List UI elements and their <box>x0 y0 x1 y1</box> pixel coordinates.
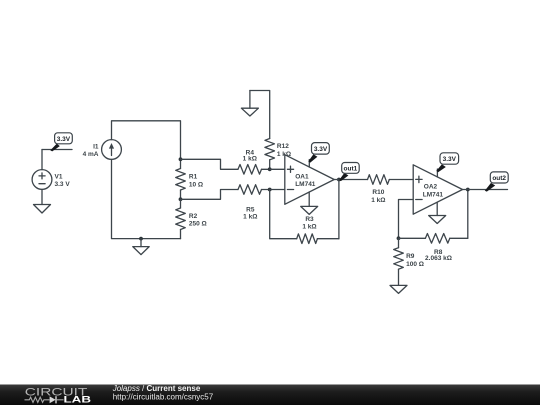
net flag 3.3V (OA1) <box>308 143 329 163</box>
wire OA1 output to R10 <box>334 179 367 181</box>
svg-text:OA1: OA1 <box>295 173 309 180</box>
wire OA1 V+ stub <box>308 160 310 168</box>
ground (OA1 V-) <box>301 206 318 214</box>
current source I1 <box>83 140 122 160</box>
wire I1 top to R1 column <box>112 121 181 160</box>
ground (bottom wire) <box>133 239 149 255</box>
resistor R3 <box>297 216 339 244</box>
net flag out2 <box>485 172 508 192</box>
svg-text:3.3V: 3.3V <box>443 156 457 163</box>
svg-text:OA2: OA2 <box>424 183 438 190</box>
svg-text:1 kΩ: 1 kΩ <box>243 156 257 163</box>
svg-text:V1: V1 <box>55 174 63 181</box>
svg-text:R12: R12 <box>277 143 289 150</box>
resistor R10 <box>368 175 414 204</box>
svg-text:LM741: LM741 <box>295 181 316 188</box>
svg-text:10 Ω: 10 Ω <box>189 181 203 188</box>
net flag 3.3V (at V1) <box>50 133 72 152</box>
node OA1 + input junction <box>268 167 272 171</box>
wire OA1 feedback left leg <box>270 190 297 239</box>
wire OA2 V- stub <box>436 203 438 216</box>
op-amp OA1 <box>285 155 334 205</box>
resistor R8 <box>399 234 468 263</box>
svg-text:LM741: LM741 <box>423 192 444 199</box>
node R8/R9 junction <box>397 236 401 240</box>
wire sense+ (R1 top to R4) <box>181 159 239 169</box>
node OA1 output <box>337 178 341 182</box>
svg-text:3.3V: 3.3V <box>314 146 328 153</box>
ground (OA2 V-) <box>429 216 446 224</box>
net flag out1 <box>339 163 359 182</box>
svg-text:out1: out1 <box>344 166 358 173</box>
ground (below R9) <box>390 285 407 293</box>
wire OA1 V- stub <box>308 192 310 206</box>
wire ground to R12 top <box>250 91 270 139</box>
wire OA2 feedback right leg <box>467 190 469 239</box>
svg-text:R9: R9 <box>406 253 415 260</box>
node OA2 output <box>466 188 470 192</box>
svg-text:4 mA: 4 mA <box>83 151 99 158</box>
net flag 3.3V (OA2) <box>436 153 458 173</box>
resistor R2 <box>176 199 207 238</box>
svg-text:1 kΩ: 1 kΩ <box>243 214 257 221</box>
wire sense- (R1/R2 junction to R5) <box>181 190 239 200</box>
wire I1 bottom <box>112 159 181 238</box>
svg-text:1 kΩ: 1 kΩ <box>302 224 316 231</box>
svg-text:3.3 V: 3.3 V <box>55 181 71 188</box>
svg-text:R5: R5 <box>246 206 255 213</box>
wire OA1 feedback right leg <box>338 180 340 239</box>
svg-text:R1: R1 <box>189 174 198 181</box>
resistor R12 <box>265 139 291 170</box>
ground (top, via R12) <box>241 91 258 117</box>
svg-text:2.063 kΩ: 2.063 kΩ <box>425 255 452 262</box>
node OA1 - input junction <box>268 188 272 192</box>
ground (below V1) <box>34 189 51 213</box>
svg-text:R10: R10 <box>372 189 384 196</box>
wire OA2 - input leg <box>399 200 414 239</box>
svg-text:LAB: LAB <box>64 395 92 405</box>
wire OA2 V+ stub <box>436 169 438 177</box>
node (ground tap on bottom wire) <box>139 237 143 241</box>
svg-text:100 Ω: 100 Ω <box>406 261 424 268</box>
resistor R1 <box>176 159 203 199</box>
svg-text:3.3V: 3.3V <box>57 136 71 143</box>
wire OA2 output <box>463 189 508 191</box>
svg-text:R2: R2 <box>189 213 198 220</box>
svg-text:out2: out2 <box>492 175 506 182</box>
footer bar <box>0 385 540 405</box>
node R1 top <box>179 157 183 161</box>
footer text <box>112 384 214 402</box>
op-amp OA2 <box>413 165 462 214</box>
resistor R4 <box>238 150 270 175</box>
svg-text:http://circuitlab.com/csnyc57: http://circuitlab.com/csnyc57 <box>113 392 214 401</box>
voltage source V1 <box>32 150 70 190</box>
CircuitLab logo <box>25 387 92 405</box>
node R1/R2 junction <box>179 197 183 201</box>
resistor R5 <box>238 185 270 221</box>
svg-text:250 Ω: 250 Ω <box>189 220 207 227</box>
svg-text:1 kΩ: 1 kΩ <box>371 197 385 204</box>
wire to OA1 - input <box>270 189 285 191</box>
resistor R9 <box>394 238 424 285</box>
wire to OA1 + input <box>270 168 285 170</box>
svg-text:R3: R3 <box>305 216 314 223</box>
svg-text:I1: I1 <box>93 143 99 150</box>
wire net stub V1 top <box>42 149 72 151</box>
